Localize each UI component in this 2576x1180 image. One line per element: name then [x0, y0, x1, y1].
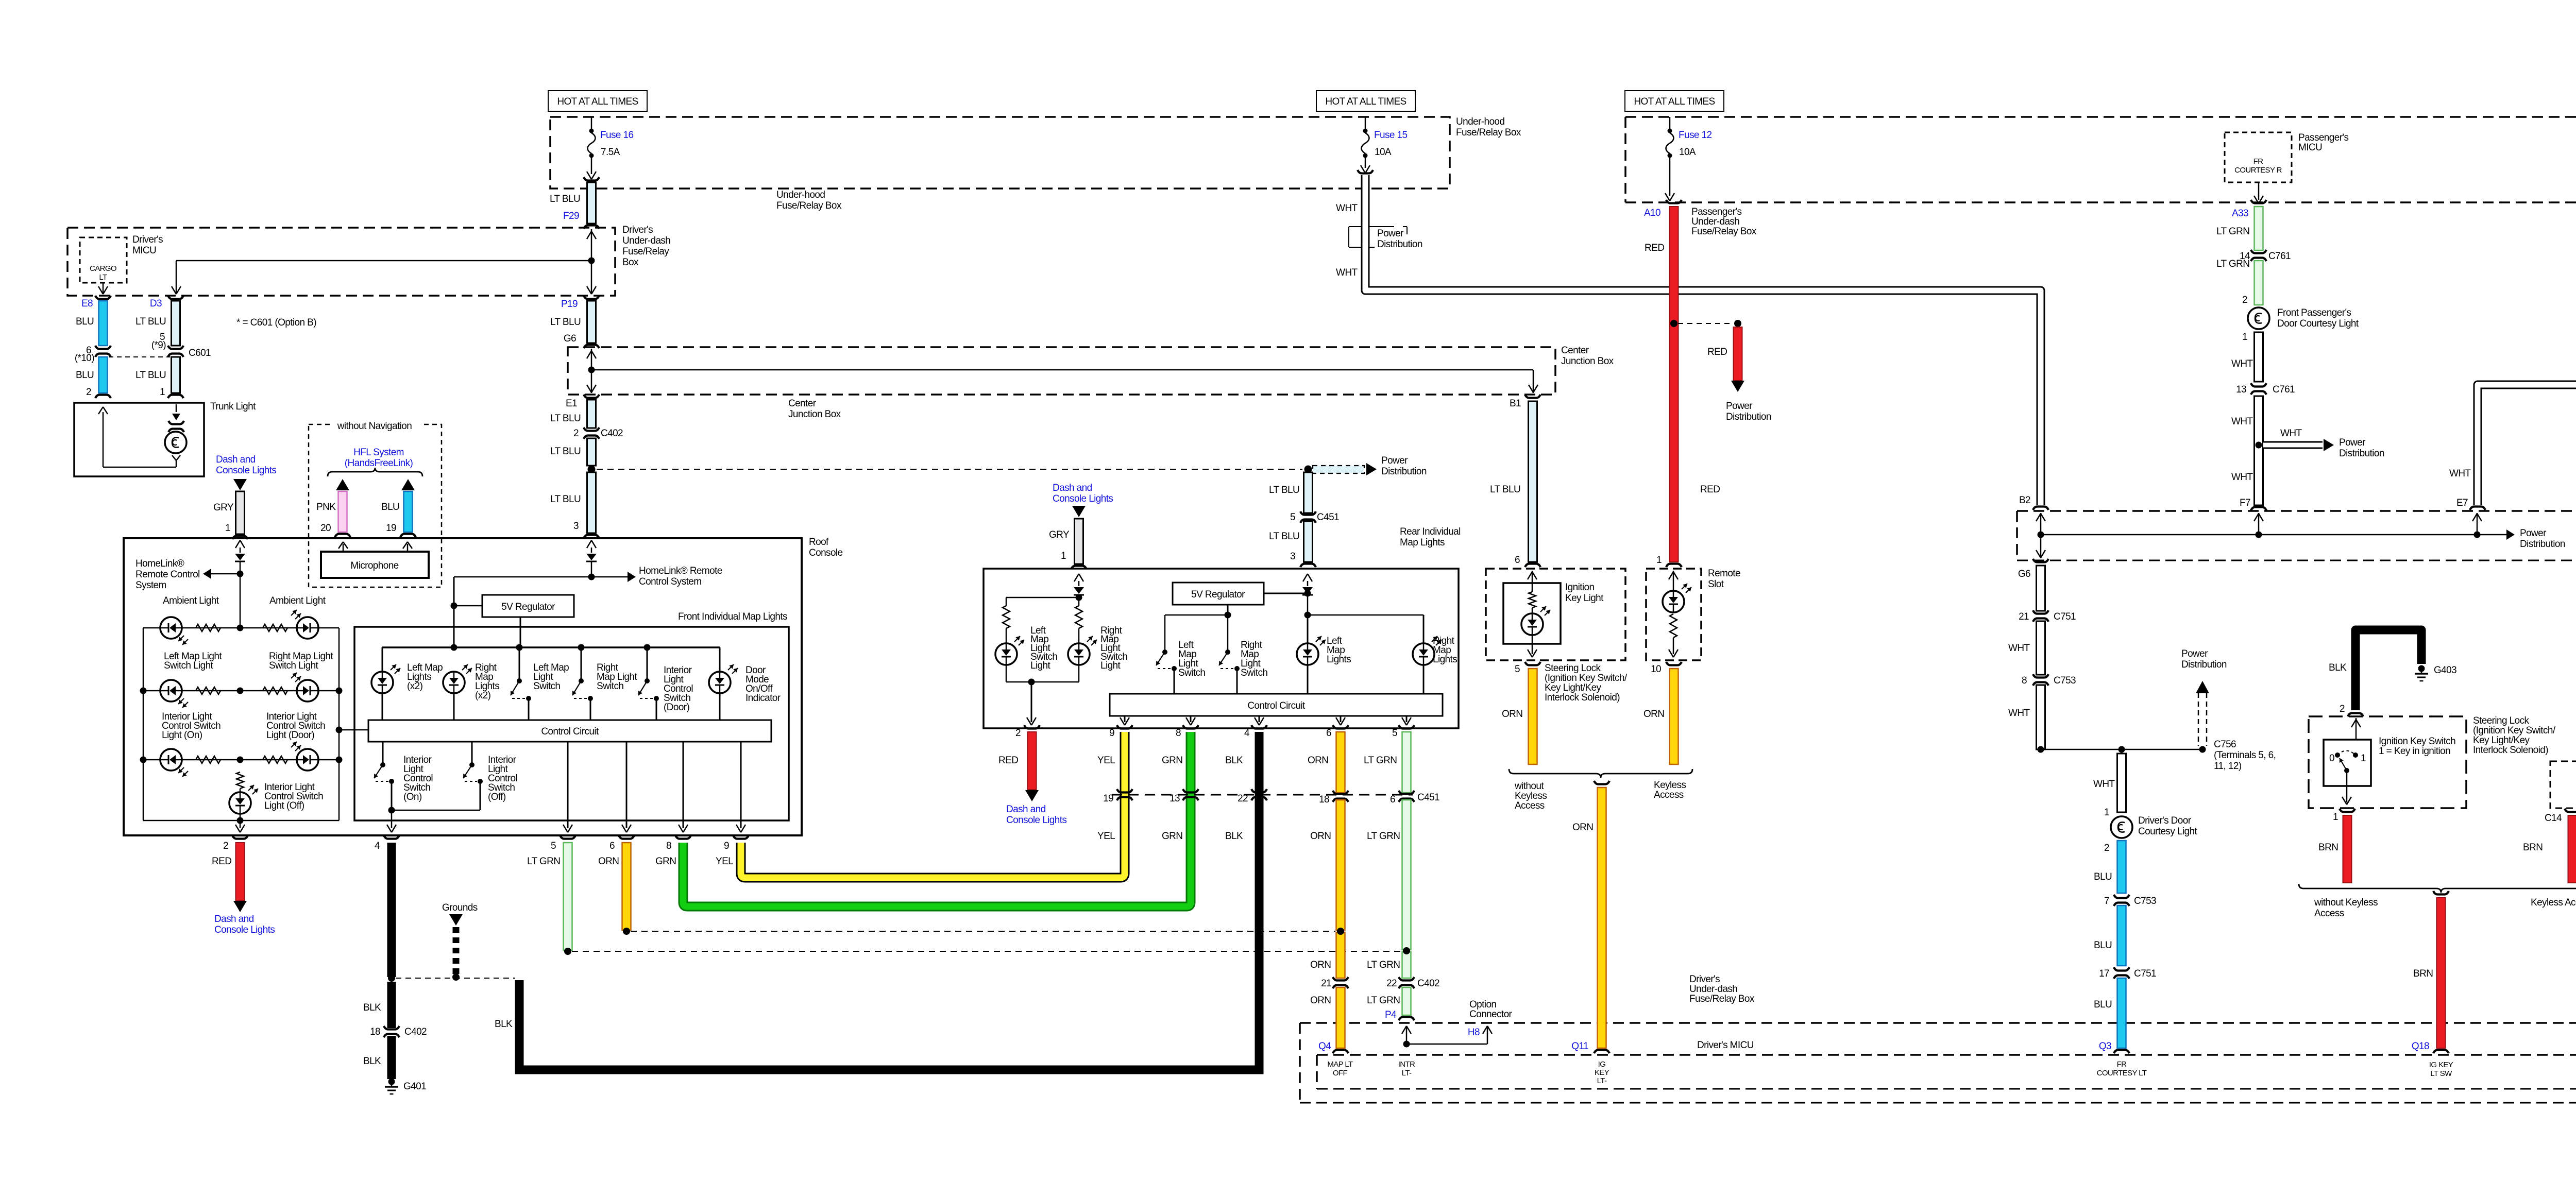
connector 22 on BLK: [1238, 789, 1267, 804]
label F7: [2240, 498, 2250, 508]
svg-text:Control System: Control System: [639, 576, 701, 587]
wire pin3 internal diode: [586, 540, 597, 577]
terminal Q18 IG KEY LT SW: [2412, 1041, 2453, 1078]
label ORN remote: [1643, 709, 1664, 720]
svg-text:Light (Door): Light (Door): [266, 730, 314, 741]
svg-text:Front Individual Map Lights: Front Individual Map Lights: [678, 611, 787, 622]
svg-text:GRN: GRN: [1162, 755, 1182, 766]
svg-text:1: 1: [225, 523, 230, 534]
svg-text:3: 3: [573, 521, 579, 532]
labels LT GRN chain: [1364, 755, 1400, 1006]
label ORN pin6: [598, 856, 619, 867]
svg-text:BLK: BLK: [2329, 662, 2347, 673]
svg-text:Remote: Remote: [1708, 568, 1740, 579]
svg-text:Power: Power: [1377, 228, 1404, 239]
ground tie dots: [388, 973, 515, 982]
svg-text:6: 6: [1390, 794, 1395, 805]
label left map lights x2: [407, 662, 443, 692]
connector 21 C751: [2019, 610, 2076, 622]
resistor row3 right: [263, 756, 287, 763]
svg-text:Fuse/Relay: Fuse/Relay: [622, 246, 669, 257]
rear 5V reg connections: [1165, 590, 1423, 619]
resistor row1 left: [196, 624, 221, 631]
svg-text:Power: Power: [2339, 437, 2366, 448]
labels B2 G6: [2018, 495, 2030, 579]
svg-text:System: System: [135, 580, 166, 591]
wire BLU driver lower: [2094, 978, 2129, 1053]
svg-text:ORN: ORN: [1502, 709, 1522, 720]
passenger under-dash fuse/relay box: [1625, 117, 2576, 202]
arrow dash-console: [233, 479, 247, 490]
ground G401: [385, 1079, 426, 1095]
svg-text:G6: G6: [2018, 569, 2030, 579]
svg-text:(Terminals 5, 6,: (Terminals 5, 6,: [2214, 750, 2276, 761]
connector 18 on ORN: [1319, 791, 1348, 805]
svg-text:Under-hood: Under-hood: [1456, 116, 1504, 127]
svg-text:WHT: WHT: [1336, 267, 1358, 278]
ignition key switch box: [2324, 740, 2371, 786]
svg-text:Driver's Door: Driver's Door: [2138, 815, 2192, 826]
ignition key switch contacts: [2329, 751, 2366, 764]
svg-text:ORN: ORN: [1308, 755, 1328, 766]
svg-text:P19: P19: [561, 299, 578, 310]
svg-text:Junction Box: Junction Box: [788, 409, 841, 420]
label power distribution (C756): [2181, 648, 2227, 670]
svg-text:HomeLink®: HomeLink®: [135, 558, 184, 569]
svg-text:without: without: [1514, 781, 1544, 792]
svg-text:Front Passenger's: Front Passenger's: [2277, 307, 2351, 318]
wire control to pin9: [736, 742, 745, 832]
resistor row2 right: [263, 687, 287, 694]
right map light switch: [572, 647, 593, 720]
svg-text:10A: 10A: [1375, 147, 1392, 158]
microphone wires: [338, 542, 412, 552]
label dash and console lights (rear): [1053, 483, 1113, 504]
svg-text:Distribution: Distribution: [1377, 239, 1422, 250]
terminal INTR LT-: [1398, 1060, 1415, 1078]
svg-text:BLU: BLU: [2094, 871, 2112, 882]
wire ORN to Q4: [1333, 987, 1348, 1053]
junction box B2 drop: [2036, 513, 2045, 558]
svg-text:7.5A: 7.5A: [601, 147, 620, 158]
wire D3 LT BLU lower: [168, 357, 183, 398]
wire BLU driver mid: [2094, 905, 2126, 966]
svg-text:Power: Power: [1726, 401, 1753, 412]
svg-text:IG KEY: IG KEY: [2429, 1061, 2453, 1069]
svg-text:1: 1: [1656, 555, 1662, 566]
wire ORN ignition pin5: [1515, 662, 1540, 764]
svg-text:Lights: Lights: [1433, 654, 1457, 665]
label power distribution (junction box): [2520, 528, 2565, 550]
wire WHT fuse15 to B2: [1358, 170, 2048, 510]
labels LT BLU rear: [1269, 485, 1299, 542]
power distribution bracket: [1349, 227, 1407, 247]
svg-text:5: 5: [1515, 664, 1520, 675]
wire ORN mid: [1336, 800, 1345, 978]
5V regulator (roof console 1): [482, 595, 574, 617]
svg-text:BLU: BLU: [76, 370, 94, 381]
svg-text:BLU: BLU: [76, 316, 94, 327]
driver's under-dash fuse/relay box (bottom): [1300, 1023, 2576, 1103]
svg-text:8: 8: [1176, 728, 1181, 739]
labels P19 LT BLU G6: [550, 299, 581, 344]
svg-text:Dash and: Dash and: [214, 914, 254, 925]
svg-text:Switch Light: Switch Light: [269, 660, 319, 671]
svg-text:Access: Access: [2314, 908, 2344, 919]
svg-text:RED: RED: [998, 755, 1018, 766]
svg-text:Trunk Light: Trunk Light: [210, 401, 256, 412]
svg-text:C753: C753: [2054, 675, 2076, 686]
svg-text:C753: C753: [2134, 896, 2156, 907]
svg-text:RED: RED: [1700, 484, 1720, 495]
svg-text:WHT: WHT: [2231, 358, 2253, 369]
interior light control switch light (Off) LED: [229, 785, 258, 814]
interior light control switch light (On) LED: [160, 749, 188, 777]
svg-text:(On): (On): [403, 792, 422, 802]
svg-text:BLK: BLK: [363, 1002, 381, 1013]
svg-text:Dash and: Dash and: [1006, 804, 1046, 815]
connector 19 on YEL: [1103, 789, 1132, 804]
svg-text:C756: C756: [2214, 739, 2236, 750]
grid row 1: [143, 625, 339, 631]
wire control to pin5: [563, 742, 572, 832]
svg-text:IG: IG: [1598, 1060, 1606, 1069]
dashed line LT GRN tie: [572, 951, 1401, 952]
svg-text:Passenger's: Passenger's: [2298, 132, 2348, 143]
labels YEL: [1097, 755, 1115, 842]
junction dot roof feed: [588, 466, 596, 473]
rear map lights box: [984, 569, 1459, 728]
svg-text:Connector: Connector: [1469, 1009, 1513, 1020]
label power distribution (center): [1381, 455, 1427, 477]
svg-text:(*10): (*10): [75, 353, 94, 364]
wire A33 LT GRN lower: [2216, 259, 2263, 305]
dashed tie C601: [109, 356, 170, 357]
rear pin9 YEL cap: [1109, 725, 1132, 739]
svg-text:Light (On): Light (On): [162, 730, 202, 741]
svg-text:MICU: MICU: [132, 245, 156, 256]
front individual map lights box: [354, 627, 789, 820]
BLK wire 2 to rear: [495, 732, 1259, 1070]
svg-text:(Ignition Key Switch/: (Ignition Key Switch/: [1545, 673, 1628, 683]
dashed line ORN tie: [631, 931, 1335, 932]
labels BLK 2: [2329, 662, 2347, 714]
rear right map light switch light LED: [1068, 636, 1097, 682]
wire control to pin8: [679, 742, 688, 832]
svg-text:BLK: BLK: [1225, 831, 1243, 842]
svg-text:BLU: BLU: [2094, 940, 2112, 951]
label rear individual map lights: [1400, 526, 1461, 548]
power label HOT AT ALL TIMES (fuse 15): [1316, 91, 1415, 111]
svg-text:LT BLU: LT BLU: [550, 194, 580, 204]
label P4: [1385, 1010, 1397, 1020]
svg-text:ORN: ORN: [1310, 831, 1331, 842]
svg-text:Switch: Switch: [1178, 668, 1205, 678]
wire switch bus to pin4: [387, 807, 480, 833]
wire LT BLU to junction: [587, 438, 596, 466]
svg-text:4: 4: [1244, 728, 1250, 739]
wire FR courtesy to A33: [2254, 182, 2263, 203]
wire PNK microphone pin20: [335, 491, 350, 537]
junction RED power dist: [1670, 320, 1741, 327]
svg-text:ORN: ORN: [1643, 709, 1664, 720]
svg-text:Option: Option: [1469, 999, 1496, 1010]
svg-text:Q18: Q18: [2412, 1041, 2429, 1052]
svg-text:Power: Power: [1381, 455, 1408, 466]
map light bus: [382, 644, 720, 672]
svg-text:1: 1: [2104, 807, 2109, 818]
label LT BLU / F29: [550, 194, 580, 221]
label YEL pin9: [716, 856, 733, 867]
svg-text:2: 2: [223, 841, 228, 851]
svg-text:D3: D3: [150, 298, 162, 309]
svg-text:INTR: INTR: [1398, 1060, 1415, 1069]
svg-text:19: 19: [1103, 793, 1113, 804]
svg-text:Key Light/Key: Key Light/Key: [2473, 735, 2530, 746]
grounds dashed wire: [442, 902, 478, 974]
connector 13 on GRN: [1170, 789, 1198, 804]
labels A33 LT GRN: [2216, 208, 2249, 237]
svg-text:OFF: OFF: [1333, 1069, 1348, 1078]
svg-text:F29: F29: [563, 211, 579, 221]
wire D3 LT BLU upper: [168, 296, 183, 346]
label under-hood fuse/relay box (below): [776, 190, 842, 211]
svg-text:* = C601 (Option B): * = C601 (Option B): [236, 317, 316, 328]
node homelink right: [588, 572, 636, 582]
junction box E7 drop: [2472, 513, 2482, 535]
svg-text:Fuse/Relay Box: Fuse/Relay Box: [1691, 226, 1757, 237]
svg-text:Switch: Switch: [533, 681, 560, 692]
svg-text:(x2): (x2): [407, 681, 423, 692]
junction rear LT BLU: [1304, 466, 1312, 473]
svg-text:Power: Power: [2520, 528, 2547, 539]
label Fuse 16 7.5A: [600, 130, 633, 158]
svg-text:C601: C601: [189, 348, 211, 358]
svg-text:C402: C402: [601, 428, 623, 439]
under-hood fuse/relay box: [550, 117, 1450, 189]
svg-text:(HandsFreeLink): (HandsFreeLink): [345, 458, 413, 469]
roof console box: [124, 538, 802, 835]
svg-text:WHT: WHT: [2231, 472, 2253, 483]
svg-text:Under-dash: Under-dash: [622, 235, 670, 246]
svg-text:11, 12): 11, 12): [2214, 761, 2242, 772]
connector 7 C753: [2104, 895, 2156, 907]
wire BRN ignition key: [2333, 809, 2355, 883]
node WHT power dist: [2256, 439, 2334, 451]
svg-text:ORN: ORN: [1310, 995, 1331, 1006]
labels E1 LT BLU: [550, 398, 581, 424]
rear pin1 internal diode: [1074, 574, 1084, 597]
svg-text:COURTESY LT: COURTESY LT: [2097, 1069, 2147, 1078]
svg-text:B1: B1: [1510, 398, 1521, 409]
wire E1 LT BLU: [584, 395, 599, 428]
svg-text:HomeLink® Remote: HomeLink® Remote: [639, 566, 722, 576]
power control unit box: [2550, 761, 2576, 808]
label rear left map lights: [1327, 636, 1351, 665]
svg-text:Distribution: Distribution: [1726, 412, 1771, 422]
left map light switch light LED: [160, 680, 188, 708]
svg-text:G403: G403: [2434, 665, 2456, 676]
svg-text:(Door): (Door): [664, 702, 690, 713]
wire grid to control circuit: [336, 727, 369, 733]
svg-text:8: 8: [2022, 675, 2027, 686]
labels LT BLU 5 (*9) C601 1: [135, 316, 211, 398]
wire LT GRN mid: [1402, 800, 1411, 978]
wire LT BLU rear upper: [1304, 472, 1313, 513]
svg-text:LT GRN: LT GRN: [1367, 831, 1400, 842]
svg-text:G401: G401: [403, 1081, 426, 1092]
svg-text:LT GRN: LT GRN: [1364, 755, 1397, 766]
svg-text:WHT: WHT: [2093, 779, 2115, 790]
svg-text:2: 2: [86, 387, 91, 398]
ignition key switch lever: [2340, 758, 2351, 805]
svg-text:Dash and: Dash and: [1053, 483, 1092, 493]
driver's junction box 1: [2017, 511, 2576, 560]
svg-text:Fuse 15: Fuse 15: [1374, 130, 1407, 141]
FR COURTESY R block: [2225, 132, 2292, 182]
svg-text:Ambient Light: Ambient Light: [269, 595, 326, 606]
pin 9 YEL wire: [724, 732, 1125, 878]
svg-text:Fuse 16: Fuse 16: [600, 130, 633, 141]
label interior light control switch door: [664, 665, 693, 713]
svg-text:Light (Off): Light (Off): [264, 800, 304, 811]
svg-text:Fuse/Relay Box: Fuse/Relay Box: [1456, 127, 1521, 138]
label keyless access (steering): [2531, 897, 2576, 908]
svg-text:9: 9: [1109, 728, 1114, 739]
wire cargo lt to E8: [98, 283, 108, 294]
connector 8 C753: [2022, 674, 2076, 686]
label interior light control switch light (Door): [266, 711, 325, 741]
labels GRY 1 rear: [1049, 529, 1070, 561]
terminal Q3 FR COURTESY LT: [2097, 1041, 2147, 1078]
connector 21 C402 on ORN: [1321, 977, 1348, 989]
wire LT BLU rear lower: [1290, 521, 1316, 567]
label rear left map light switch: [1178, 640, 1205, 678]
ignition key light inner box: [1503, 583, 1561, 644]
label rear right map lights: [1433, 636, 1457, 665]
svg-text:(*9): (*9): [151, 340, 166, 351]
svg-text:1: 1: [160, 387, 165, 398]
svg-text:A10: A10: [1644, 208, 1660, 218]
wire BRN C14: [2545, 809, 2576, 883]
svg-text:Driver's: Driver's: [622, 225, 653, 235]
svg-text:13: 13: [2236, 384, 2246, 395]
svg-text:Q11: Q11: [1571, 1041, 1588, 1052]
resistor off-lamp: [236, 772, 244, 789]
wire off-lamp to pin2: [235, 814, 245, 832]
svg-text:BLU: BLU: [2094, 999, 2112, 1010]
interior light control switch light (Door) LED: [291, 742, 318, 771]
5V regulator (rear): [1173, 583, 1264, 605]
ignition key switch wire up: [2351, 718, 2361, 740]
svg-text:17: 17: [2099, 968, 2109, 979]
svg-text:Roof: Roof: [809, 537, 829, 548]
BLK wire to G401: [363, 982, 427, 1079]
connector C451 (rear feed): [1290, 511, 1339, 523]
remote slot box: [1646, 569, 1701, 660]
steering lock box: [2309, 716, 2466, 808]
label dash and console lights (roof console 1): [216, 454, 276, 476]
svg-text:GRY: GRY: [213, 502, 234, 513]
label BRN q18: [2413, 968, 2433, 979]
wire RED power dist stub: [1731, 327, 1744, 392]
svg-text:LT: LT: [99, 273, 107, 282]
label homelink right: [639, 566, 722, 587]
driver's MICU box (bottom): [1317, 1055, 2576, 1089]
label Fuse 12 10A: [1679, 130, 1711, 158]
wire pin1 internal diode: [235, 540, 245, 628]
svg-text:5V Regulator: 5V Regulator: [1191, 589, 1245, 600]
svg-text:BLK: BLK: [363, 1056, 381, 1067]
interior light control switch (On): [374, 742, 394, 810]
svg-text:LT BLU: LT BLU: [1269, 531, 1299, 542]
center junction internal wire: [587, 349, 1538, 393]
svg-text:LT GRN: LT GRN: [2216, 226, 2249, 237]
labels A10 RED: [1644, 208, 1720, 566]
labels ORN chain: [1308, 755, 1331, 1006]
svg-text:18: 18: [370, 1027, 380, 1037]
labels RED dash console: [212, 856, 275, 935]
labels BLK rear: [1225, 755, 1243, 842]
svg-text:Console Lights: Console Lights: [1053, 493, 1113, 504]
rear pin6 ORN wire: [1326, 725, 1348, 793]
svg-text:Switch: Switch: [597, 681, 623, 692]
svg-text:13: 13: [1170, 793, 1180, 804]
svg-text:Control Circuit: Control Circuit: [541, 726, 599, 737]
svg-text:Key Light: Key Light: [1565, 593, 1604, 604]
svg-text:5V Regulator: 5V Regulator: [501, 602, 555, 612]
connector 14 C761: [2240, 250, 2291, 262]
wire E8 BLU upper: [95, 296, 111, 346]
arrow PNK up: [336, 479, 349, 490]
wire WHT courtesy upper: [2231, 332, 2263, 382]
door mode indicator LED: [709, 664, 738, 720]
label keyless access: [1654, 780, 1686, 800]
labels GRN: [1162, 755, 1182, 842]
svg-text:2: 2: [2104, 843, 2109, 853]
svg-text:2: 2: [2242, 295, 2247, 305]
svg-text:ORN: ORN: [1310, 960, 1331, 970]
labels PNK 20: [316, 502, 336, 534]
microphone box: [321, 552, 429, 578]
left map lights LED (x2): [371, 664, 400, 720]
label HFL system: [345, 447, 413, 469]
svg-text:P4: P4: [1385, 1010, 1397, 1020]
svg-text:F7: F7: [2240, 498, 2250, 508]
svg-text:1: 1: [1061, 551, 1066, 561]
wire F29 LT BLU: [584, 177, 599, 229]
svg-text:Remote Control: Remote Control: [135, 569, 200, 580]
label ORN q11: [1572, 822, 1593, 833]
svg-text:C761: C761: [2268, 251, 2291, 262]
labels GRY 1: [213, 502, 234, 534]
wire WHT G6 upper: [2033, 559, 2048, 611]
label right map light switch light: [269, 651, 333, 671]
wire WHT courtesy lower: [2231, 396, 2266, 510]
ambient light LED right: [291, 610, 318, 639]
svg-text:LT BLU: LT BLU: [550, 494, 581, 505]
label passenger MICU: [2298, 132, 2348, 153]
grid row 3: [140, 757, 343, 763]
lamp grid frame: [143, 628, 339, 820]
svg-text:Access: Access: [1654, 790, 1684, 800]
ignition key light box: [1486, 569, 1625, 660]
control circuit box rear: [1110, 694, 1443, 716]
svg-text:3: 3: [1290, 551, 1295, 562]
wire ORN to Q11: [1594, 781, 1609, 1053]
svg-text:21: 21: [1321, 978, 1331, 989]
svg-text:GRN: GRN: [655, 856, 676, 867]
